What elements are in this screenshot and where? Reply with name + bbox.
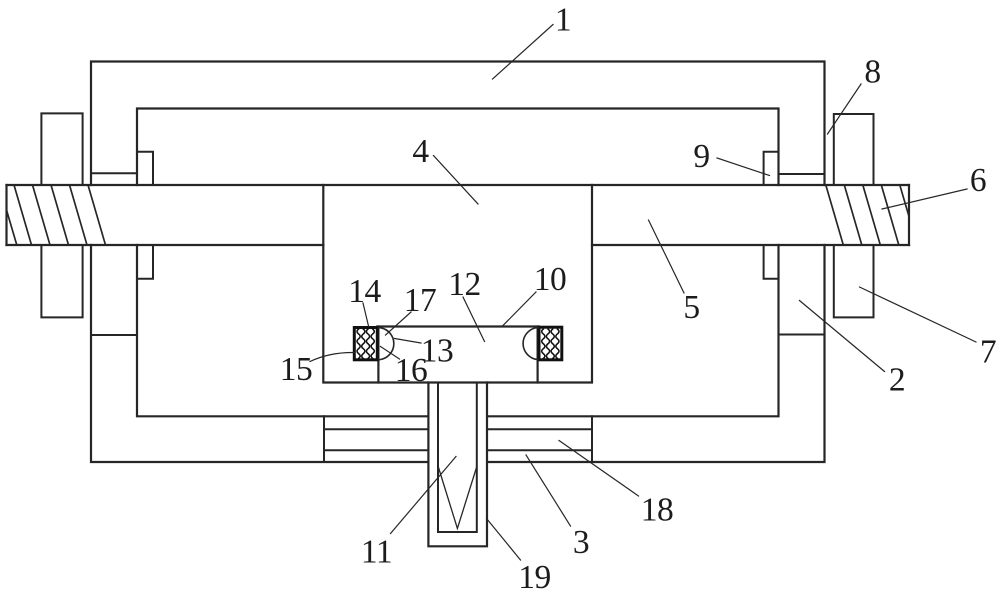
svg-text:11: 11 <box>361 533 392 570</box>
plate right wall <box>591 416 593 462</box>
leader 12 <box>463 297 485 342</box>
plate 3 lower strip <box>324 449 592 451</box>
svg-text:6: 6 <box>970 162 986 199</box>
plate 18 upper strip <box>324 428 592 430</box>
divider ledge bottom-right <box>779 334 825 336</box>
retaining tab 9 upper-right <box>764 152 779 185</box>
leader 19 <box>487 519 521 561</box>
screw bar 5 6 outline <box>7 185 910 245</box>
leader 7 <box>860 287 977 342</box>
left mounting flange <box>41 113 82 317</box>
divider ledge top-left <box>91 172 137 174</box>
leader 14 <box>363 303 369 326</box>
leader 4 <box>434 156 479 205</box>
svg-text:15: 15 <box>280 351 313 388</box>
svg-text:2: 2 <box>889 361 905 398</box>
svg-text:19: 19 <box>518 559 551 595</box>
left hatching on bar <box>7 185 106 245</box>
svg-text:8: 8 <box>864 53 880 90</box>
leader 18 <box>559 441 639 497</box>
plate left wall <box>323 416 325 462</box>
divider ledge bottom-left <box>91 334 137 336</box>
leader 10 <box>503 292 537 326</box>
leader 15 <box>310 352 355 361</box>
retaining tab lower-right <box>764 245 779 279</box>
leader 5 <box>649 220 685 293</box>
svg-text:3: 3 <box>573 524 589 561</box>
spring 14 left <box>354 328 377 360</box>
leader 9 <box>717 158 770 176</box>
retaining tab lower-left <box>137 245 153 279</box>
svg-text:4: 4 <box>412 133 429 170</box>
svg-text:12: 12 <box>448 266 481 303</box>
inner frame box 2 <box>137 109 779 417</box>
leader 11 <box>391 457 457 534</box>
right hatching on bar 6 <box>826 185 909 245</box>
divider ledge top-right <box>779 173 825 175</box>
svg-text:5: 5 <box>683 289 699 326</box>
drill tube inner wall <box>438 383 477 533</box>
center block 4 <box>323 185 592 383</box>
svg-text:1: 1 <box>555 1 571 38</box>
svg-text:7: 7 <box>980 333 996 370</box>
svg-text:9: 9 <box>693 138 709 175</box>
detent housing 10 12 <box>377 327 538 383</box>
svg-text:17: 17 <box>404 282 437 319</box>
leader 3 <box>526 455 571 526</box>
leader 13 <box>395 339 422 344</box>
svg-text:10: 10 <box>534 261 567 298</box>
svg-text:16: 16 <box>395 352 428 389</box>
retaining tab 9 upper-left <box>137 152 153 185</box>
right mounting flange 7 <box>834 114 874 317</box>
drill tube 19 outer <box>428 383 487 547</box>
leader 17 <box>386 312 412 335</box>
svg-text:18: 18 <box>641 491 674 528</box>
drill bit 11 V <box>439 468 477 529</box>
spring 15 right <box>539 327 562 360</box>
svg-text:14: 14 <box>348 273 381 310</box>
leader 1 <box>493 25 554 80</box>
leader 6 <box>882 189 967 209</box>
leader 2 <box>800 301 885 372</box>
outer housing box 1 <box>91 62 825 463</box>
leader 16 <box>381 347 400 360</box>
leader 8 <box>828 84 862 134</box>
detent ball right <box>523 328 538 360</box>
detent ball 13 left <box>379 328 394 360</box>
